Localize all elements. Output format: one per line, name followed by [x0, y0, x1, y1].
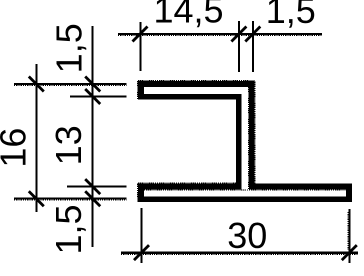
left dimension line 16 (outer): [35, 64, 37, 212]
profile outline (h-shaped cross-section, drawn as thick outline): [138, 81, 352, 202]
dither teeth below bottom flange top stroke (inner surface): [144, 189, 346, 191]
svg-text:30: 30: [227, 215, 267, 256]
tick at (349.3,252.6): [342, 245, 357, 260]
bottom dimension line 30: [121, 251, 358, 254]
dither teeth right of web right stroke: [254, 82, 256, 184]
dither teeth left of web right stroke: [247, 87, 249, 189]
tick at (92.7,186.6): [85, 179, 100, 194]
top dimension line dotted row: [118, 35, 322, 37]
dither teeth above top flange: [138, 80, 255, 82]
extension line right dotted col: [347, 212, 349, 250]
left dimension line 1,5/13/1,5 (inner): [92, 26, 94, 247]
extension line at top flange inner surface (left): [70, 96, 127, 98]
tick at (140,34): [133, 27, 148, 42]
svg-text:1,5: 1,5: [48, 204, 89, 254]
tick at (252.8,34): [245, 27, 260, 42]
extension line at profile left edge (top): [140, 22, 142, 71]
tick at (238.9,34): [231, 27, 246, 42]
extension line at profile top edge (left): [14, 83, 127, 85]
extension line at web left (top): [238, 21, 240, 72]
top dimension line: [118, 33, 322, 35]
tick at (92.7,84): [85, 77, 100, 92]
extension line at profile left edge (bottom): [141, 208, 143, 263]
dither teeth left of top flange cap: [137, 81, 139, 100]
svg-text:1,5: 1,5: [266, 0, 316, 31]
extension line top dotted row: [14, 85, 127, 87]
bottom dimension line dotted row: [121, 254, 358, 256]
extension line at web right (top): [252, 21, 254, 72]
dither teeth left of bottom flange cap: [137, 184, 139, 203]
svg-text:16: 16: [0, 128, 34, 168]
svg-text:14,5: 14,5: [153, 0, 223, 31]
tick at (92.7,198.8): [85, 191, 100, 206]
tick at (141.5,252.6): [134, 245, 149, 260]
svg-text:13: 13: [48, 125, 89, 165]
tick at (92.7,96.5): [85, 89, 100, 104]
tick at (36.3,198.8): [29, 191, 44, 206]
extension line bottom dotted row: [14, 199, 127, 201]
extension line at profile bottom edge (left): [14, 197, 127, 199]
extension line at bottom flange inner surface (left): [67, 186, 127, 188]
dither teeth above bottom flange top stroke (left part): [138, 182, 236, 184]
tick at (36.3,84): [29, 77, 44, 92]
extension line at profile right edge (bottom): [348, 209, 350, 263]
svg-text:1,5: 1,5: [49, 23, 90, 73]
